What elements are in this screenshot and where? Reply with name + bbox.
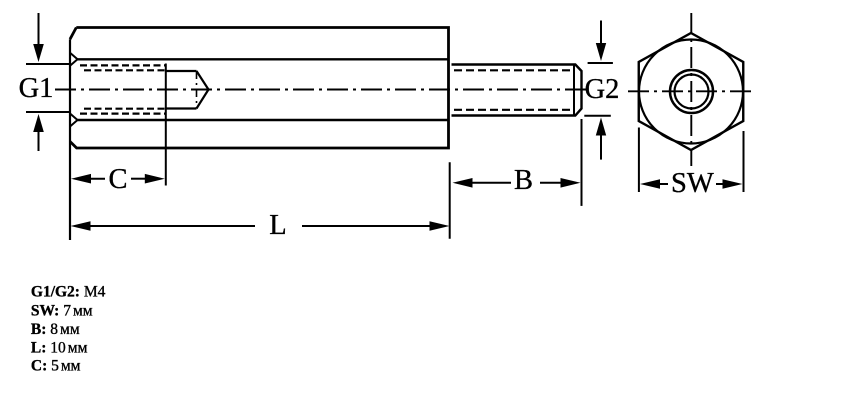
svg-text:B: B xyxy=(514,165,533,196)
svg-text:G1/G2: М4: G1/G2: М4 xyxy=(31,284,106,301)
svg-text:C: 5мм: C: 5мм xyxy=(31,358,81,375)
svg-text:SW: 7мм: SW: 7мм xyxy=(31,303,93,320)
svg-text:B: 8мм: B: 8мм xyxy=(31,321,80,338)
svg-text:L: L xyxy=(269,210,286,241)
svg-text:G2: G2 xyxy=(585,74,620,105)
svg-text:L: 10мм: L: 10мм xyxy=(31,340,88,357)
svg-text:C: C xyxy=(108,164,127,195)
svg-text:SW: SW xyxy=(671,168,714,199)
svg-text:G1: G1 xyxy=(19,73,54,104)
